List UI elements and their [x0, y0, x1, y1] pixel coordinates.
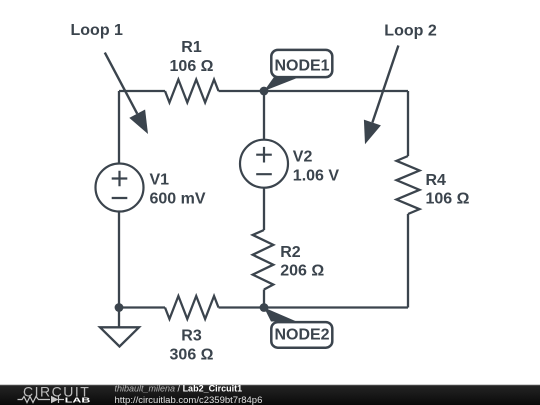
svg-text:R2: R2	[280, 244, 301, 261]
wire bottom left (ground junction to R3)	[119, 306, 165, 308]
svg-text:106 Ω: 106 Ω	[426, 190, 470, 207]
annotation arrow Loop 1	[105, 53, 148, 134]
resistor R2	[253, 230, 274, 290]
svg-text:306 Ω: 306 Ω	[170, 346, 214, 363]
node junction dot ground	[115, 303, 124, 312]
svg-text:106 Ω: 106 Ω	[170, 58, 214, 75]
svg-text:Loop 1: Loop 1	[71, 22, 124, 39]
svg-text:V2: V2	[293, 148, 313, 165]
wire left rail lower	[118, 212, 120, 308]
wire right rail lower	[407, 214, 409, 308]
wire bottom middle (R3 to NODE2)	[219, 306, 265, 308]
annotation arrow Loop 2	[364, 46, 399, 145]
svg-text:206 Ω: 206 Ω	[280, 263, 324, 280]
svg-text:http://circuitlab.com/c2359bt7: http://circuitlab.com/c2359bt7r84p6	[115, 395, 263, 405]
svg-text:V1: V1	[150, 171, 170, 188]
voltage source V2	[240, 140, 288, 188]
resistor R1	[165, 80, 219, 103]
svg-text:600 mV: 600 mV	[150, 191, 206, 208]
resistor R3	[165, 296, 219, 319]
svg-text:LAB: LAB	[65, 395, 91, 404]
node NODE2 callout tail	[264, 308, 297, 322]
svg-text:R4: R4	[426, 172, 447, 189]
node junction dot NODE2	[260, 303, 269, 312]
wire middle rail upper (NODE1 to V2)	[263, 91, 265, 140]
svg-text:NODE1: NODE1	[274, 58, 329, 75]
wire top left horizontal	[119, 90, 165, 92]
wire middle rail (R2 to NODE2)	[263, 290, 265, 308]
svg-text:R1: R1	[181, 39, 202, 56]
node NODE1 callout box	[271, 50, 332, 77]
ground	[100, 308, 139, 347]
voltage source V1	[96, 164, 144, 212]
svg-text:R3: R3	[181, 328, 202, 345]
svg-text:1.06 V: 1.06 V	[293, 167, 340, 184]
svg-text:NODE2: NODE2	[274, 326, 329, 343]
node NODE1 callout tail	[264, 77, 297, 91]
wire middle rail (V2 to R2)	[263, 188, 265, 230]
wire left rail upper	[118, 91, 120, 164]
node NODE2 callout box	[271, 322, 332, 348]
wire top right (NODE1 to right rail)	[264, 90, 408, 92]
wire right rail upper	[407, 91, 409, 156]
wire top middle (R1 to NODE1)	[219, 90, 265, 92]
wire bottom right (NODE2 to right rail)	[264, 306, 408, 308]
node junction dot NODE1	[260, 87, 269, 96]
resistor R4	[397, 156, 420, 214]
footer logo resistor-diode doodle	[18, 396, 65, 403]
svg-text:thibault_milena / Lab2_Circuit: thibault_milena / Lab2_Circuit1	[115, 384, 243, 394]
svg-text:Loop 2: Loop 2	[384, 23, 437, 40]
